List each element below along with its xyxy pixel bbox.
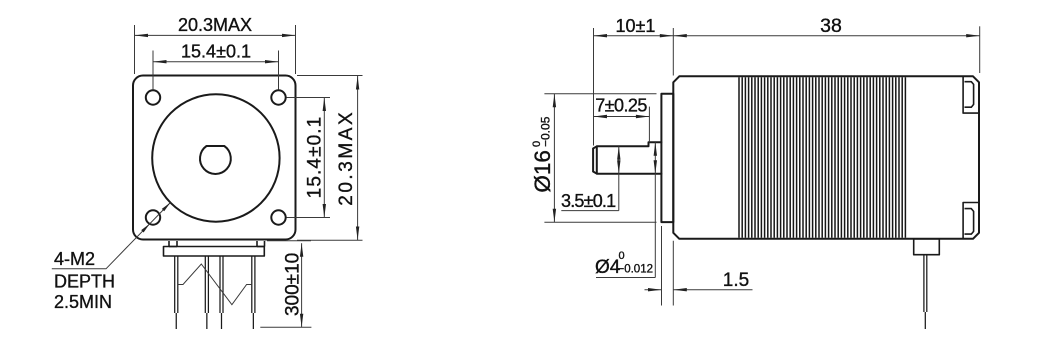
- dimension Ø4: leader: [596, 174, 655, 278]
- svg-text:Ø16: Ø16: [530, 150, 555, 193]
- svg-text:−0.012: −0.012: [618, 264, 654, 276]
- mounting hole bottom-left: [146, 210, 160, 224]
- svg-text:15.4±0.1: 15.4±0.1: [305, 116, 326, 199]
- bottom-right clip spring: [965, 209, 974, 235]
- svg-text:20.3MAX: 20.3MAX: [336, 110, 357, 206]
- motor front-view square body: [133, 76, 296, 240]
- lead wire 3: [220, 256, 223, 329]
- svg-text:38: 38: [820, 15, 842, 37]
- dimension 10±1: dim line: [594, 35, 674, 37]
- svg-text:1.5: 1.5: [723, 270, 749, 291]
- mounting hole top-left: [146, 90, 160, 104]
- dimension 15.4 right: extension lines: [287, 98, 331, 218]
- leader arrowhead at pilot circle: [162, 203, 171, 212]
- wire break zigzag: [178, 264, 252, 305]
- motor side-view body outline: [673, 76, 979, 239]
- top-right clip spring: [965, 82, 974, 108]
- front flange plate: [661, 94, 673, 222]
- svg-text:3.5±0.1: 3.5±0.1: [561, 191, 616, 211]
- dimension 38: extension line right: [979, 26, 981, 73]
- dimension Ø16: extension lines: [544, 94, 656, 223]
- dimension 300±10: dim line: [301, 243, 303, 327]
- dimension 1.5: dim lines: [645, 289, 662, 291]
- rear wire connector block: [914, 239, 940, 255]
- dimension 7±0.25: dim line: [594, 116, 650, 118]
- svg-text:300±10: 300±10: [283, 253, 304, 316]
- svg-text:0: 0: [619, 250, 625, 262]
- dimension 15.4 top: extension lines: [153, 51, 279, 90]
- dimension 20.3MAX top: dim line: [135, 34, 296, 36]
- lead wire 1: [175, 256, 178, 329]
- dimension 3.5±0.1: leader: [561, 174, 619, 211]
- lead wire 4: [252, 256, 255, 329]
- dimension 1.5: extension lines: [662, 226, 674, 306]
- top-right clip slot: [963, 77, 979, 113]
- dimension 300±10: extension lines: [260, 241, 311, 328]
- mounting hole bottom-right: [271, 210, 285, 224]
- pilot circle: [152, 94, 279, 221]
- motor shaft outline: [593, 142, 661, 174]
- bottom-right clip slot: [963, 203, 979, 239]
- dimension 3.5±0.1: arrows through shaft: [618, 146, 620, 173]
- mounting hole top-right: [271, 90, 285, 104]
- dimension 38: dim line: [673, 35, 979, 37]
- rear lead wire: [924, 255, 927, 329]
- svg-text:−0.05: −0.05: [539, 116, 553, 147]
- connector housing: [164, 247, 265, 257]
- connector tabs under body: [169, 241, 265, 247]
- dimension 7±0.25: extension line: [648, 107, 650, 143]
- dimension Ø16: dim line: [553, 94, 555, 223]
- dimension 15.4 top: dim line: [153, 61, 279, 63]
- svg-text:10±1: 10±1: [616, 16, 656, 36]
- svg-text:2.5MIN: 2.5MIN: [54, 292, 112, 312]
- shaft circle with flat: [200, 146, 231, 174]
- dimension 20.3MAX right: extension lines: [297, 76, 363, 241]
- leader line from 4-M2 to bottom-left hole: [52, 203, 171, 269]
- lamination stack hatch lines: [739, 77, 905, 238]
- leader arrowhead: [141, 224, 150, 233]
- dimension Ø4: arrows through shaft: [654, 142, 656, 174]
- dimension 20.3MAX right: dim line: [357, 76, 359, 240]
- svg-text:20.3MAX: 20.3MAX: [178, 15, 252, 35]
- dimension 20.3MAX top: extension lines: [135, 25, 296, 74]
- svg-text:15.4±0.1: 15.4±0.1: [181, 42, 251, 62]
- dimension 10±1: extension lines: [594, 28, 674, 146]
- svg-text:7±0.25: 7±0.25: [595, 96, 647, 116]
- dimension 15.4 right: dim line: [323, 98, 325, 218]
- svg-text:DEPTH: DEPTH: [54, 272, 115, 292]
- svg-text:4-M2: 4-M2: [54, 249, 95, 269]
- lead wire 2: [205, 256, 208, 329]
